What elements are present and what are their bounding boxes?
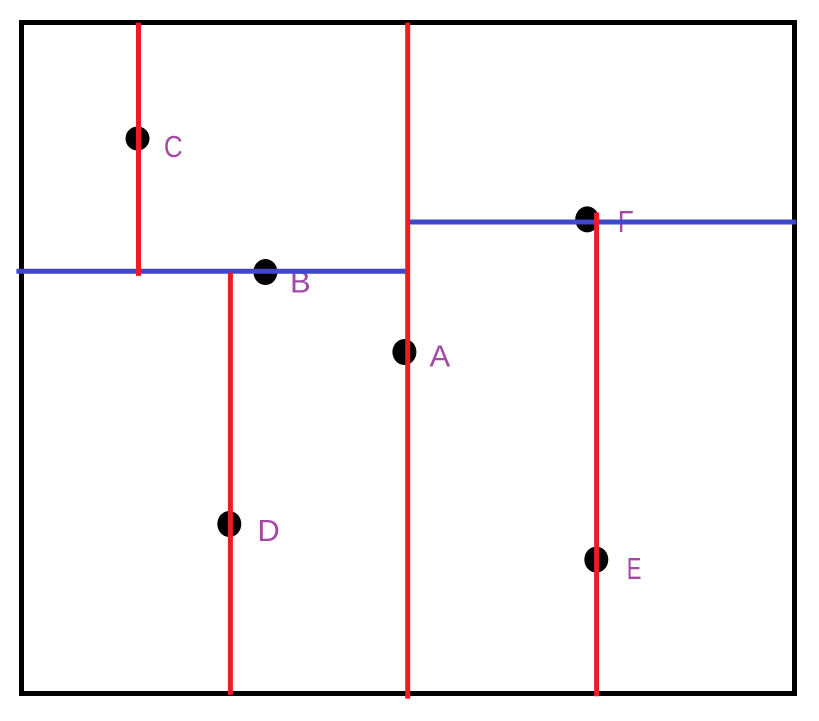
svg-text:C: C bbox=[164, 130, 183, 165]
node F (dot) bbox=[575, 206, 599, 232]
node E (dot) bbox=[584, 547, 608, 573]
svg-text:D: D bbox=[257, 513, 279, 548]
svg-text:A: A bbox=[430, 338, 451, 373]
blue horizontal line through B bbox=[16, 269, 410, 274]
red vertical line through D bbox=[228, 273, 233, 695]
blue horizontal line through F bbox=[407, 220, 797, 225]
label C bbox=[164, 130, 183, 165]
svg-text:E: E bbox=[627, 551, 642, 586]
red vertical line through E bbox=[594, 213, 599, 697]
label F bbox=[618, 205, 634, 239]
red vertical line through A bbox=[405, 23, 410, 699]
node B (dot) bbox=[253, 259, 277, 285]
node D (dot) bbox=[217, 511, 241, 537]
red vertical line through C bbox=[136, 23, 141, 276]
node C (dot) bbox=[126, 127, 150, 151]
node A (dot) bbox=[392, 339, 416, 365]
label E bbox=[627, 551, 642, 586]
